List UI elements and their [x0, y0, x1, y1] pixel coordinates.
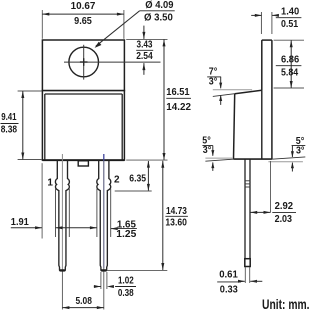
side view lead [244, 159, 246, 259]
lead 1 outline (shoulder, crimp, narrow, foot) [55, 160, 69, 271]
side view tab (thin plate) [262, 39, 272, 41]
hole horizontal centerline (extends right as extension line for 2.54 dim) [64, 61, 161, 63]
svg-text:6.35: 6.35 [129, 173, 146, 184]
shared dimension line between leads (1.91 right arrow, 1.65 left arrow) [56, 227, 97, 229]
svg-text:0.61: 0.61 [219, 270, 238, 281]
lead 1 crimp width extension lines [55, 189, 57, 238]
svg-text:0.51: 0.51 [281, 19, 299, 30]
svg-text:8.38: 8.38 [1, 124, 18, 135]
body bottom extension line (right) [126, 159, 167, 161]
svg-text:2.03: 2.03 [275, 214, 293, 225]
svg-text:5.84: 5.84 [281, 67, 299, 78]
svg-text:9.65: 9.65 [74, 16, 92, 27]
right bottom slant extension [272, 157, 305, 159]
7deg up arrow [220, 95, 222, 105]
3.43 top arrow [143, 26, 145, 39]
lead 2 centerline (blue) [103, 154, 105, 161]
side lead crimp ticks [245, 180, 251, 182]
svg-text:Unit: mm.: Unit: mm. [262, 296, 310, 312]
dim 16.51/14.22 (tab top to body bottom) dimension line [163, 39, 165, 160]
svg-text:2.54: 2.54 [136, 51, 153, 62]
dim 1.91 (body edge to lead crimp) [41, 163, 43, 238]
2.92 dimension line with arrows [250, 211, 270, 213]
lead 1 centerline (gray) [61, 154, 63, 271]
svg-text:3°: 3° [209, 76, 218, 87]
svg-text:0.33: 0.33 [220, 284, 238, 295]
svg-text:1.25: 1.25 [116, 229, 136, 240]
lead 1 foot bottom (thick) [60, 269, 65, 271]
front view body outer outline [42, 91, 124, 161]
dim 14.73/13.60 (lead length) dimension line [162, 161, 164, 270]
dim 1.02/0.38 (lead tip width) extension lines [100, 272, 102, 289]
right bottom gray reference line [268, 161, 303, 163]
left 5deg up arrow [212, 162, 214, 171]
dim 2.92/2.03 (lead to tab back) extension line [270, 161, 272, 212]
svg-text:14.22: 14.22 [166, 102, 191, 113]
svg-text:2: 2 [114, 175, 120, 186]
dim 9.41/8.38 dimension line with arrows [22, 91, 24, 160]
svg-text:Ø 3.50: Ø 3.50 [144, 13, 173, 24]
lead 2 outline (shoulder, crimp, narrow, foot) [97, 160, 111, 271]
svg-text:3°: 3° [203, 145, 212, 156]
side lead foot (dark outlined box) [245, 259, 250, 267]
svg-text:Ø 4.09: Ø 4.09 [145, 0, 174, 11]
dim 1.65/1.25 (lead crimp width) [111, 228, 116, 230]
top face slant extension (7 deg callout) [213, 94, 235, 97]
6.86 dimension line [290, 40, 292, 88]
mounting hole [69, 47, 99, 77]
side view body [235, 90, 262, 94]
7deg horizontal reference line (gray) [213, 89, 252, 91]
leader line to hole with arrowhead [96, 11, 140, 46]
body inner step line left [44, 94, 46, 160]
lead tip extension line (right) [107, 270, 167, 272]
dim 9.41/8.38 (body height) extension lines [18, 90, 42, 92]
hole vertical centerline [83, 45, 85, 80]
svg-text:9.41: 9.41 [1, 112, 17, 123]
0.61 arrows [238, 280, 245, 282]
dim 6.35 (shoulder length) [115, 190, 152, 192]
dim 10.67/9.65 dimension line with arrows [42, 13, 124, 15]
left bottom slant extension [205, 159, 234, 161]
svg-text:1.02: 1.02 [118, 276, 134, 287]
svg-text:0.38: 0.38 [118, 288, 134, 299]
svg-text:1.40: 1.40 [281, 6, 300, 17]
left bottom gray reference line [205, 157, 232, 159]
1.40 arrows [251, 14, 261, 16]
svg-text:1: 1 [47, 177, 53, 188]
dim 0.61/0.33 (lead thickness) extension lines [244, 267, 246, 283]
body inner step line top [45, 93, 122, 95]
body inner step line right [121, 94, 123, 160]
body bottom edge (thick) [42, 159, 124, 161]
svg-text:14.73: 14.73 [166, 206, 187, 217]
dim 1.02/0.38 arrows [94, 286, 101, 288]
svg-text:3.43: 3.43 [137, 40, 153, 51]
svg-text:16.51: 16.51 [166, 87, 190, 98]
dim 1.40/0.51 (tab thickness) extension lines [260, 12, 262, 34]
bottom center notch [78, 161, 88, 166]
dim 10.67/9.65 extension lines [41, 10, 43, 39]
hole center mark cross [80, 61, 88, 63]
lead 2 crimp width extension lines [96, 189, 98, 238]
7deg down arrow [220, 77, 222, 88]
2.54 bottom arrow [143, 63, 145, 75]
front view tab (metal tab with hole) [42, 40, 124, 91]
svg-text:10.67: 10.67 [71, 1, 96, 12]
svg-text:2.92: 2.92 [275, 201, 294, 212]
svg-text:6.86: 6.86 [281, 55, 300, 66]
right 5deg up arrow [291, 163, 293, 172]
dim 6.86/5.84 (tab height) extension lines [274, 39, 304, 41]
svg-text:1.91: 1.91 [11, 217, 29, 228]
svg-text:5.08: 5.08 [76, 296, 93, 307]
svg-text:13.60: 13.60 [165, 217, 187, 228]
dim 3.43/2.54 (tab top to hole center) [126, 38, 167, 40]
svg-text:3°: 3° [296, 146, 305, 157]
lead 2 foot bottom (thick) [101, 269, 106, 271]
